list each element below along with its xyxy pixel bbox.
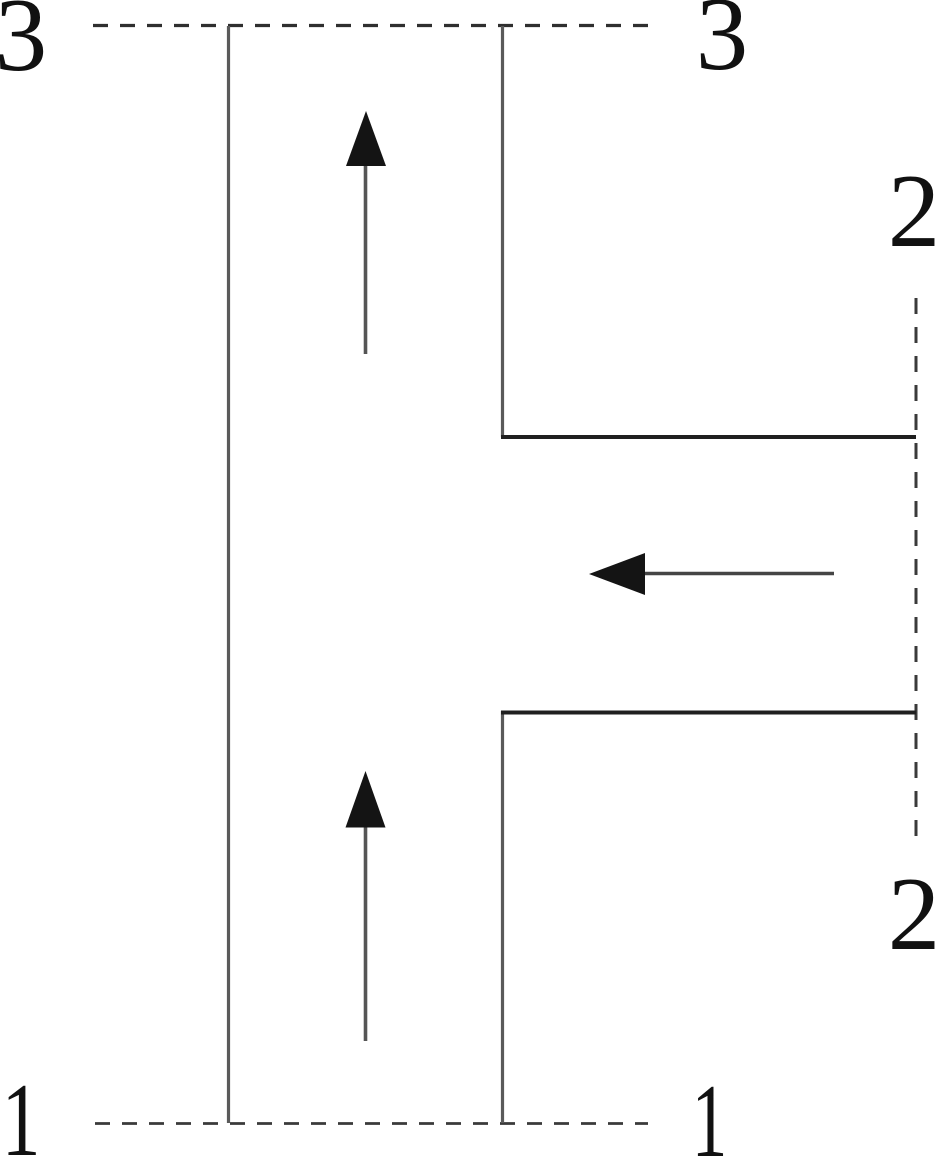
arrow up (bottom traffic direction) [346,771,386,1041]
section line 2-2 (right dashed vertical) [915,298,918,845]
wire: left road edge (vertical) [227,26,230,1123]
svg-text:3: 3 [696,0,749,92]
wire: right road edge lower segment [501,711,504,1123]
wire: right road edge upper segment [501,26,504,437]
section line 3-3 (top dashed) [93,24,648,27]
svg-text:3: 3 [0,0,47,93]
wire: side road top edge [501,435,916,439]
svg-text:2: 2 [888,855,941,972]
arrow left (side road traffic direction) [589,553,834,595]
arrow up (top traffic direction) [346,111,386,354]
svg-text:1: 1 [692,1064,728,1160]
wire: side road bottom edge [501,711,916,715]
svg-text:1: 1 [2,1062,41,1160]
svg-text:2: 2 [888,152,941,269]
section line 1-1 (bottom dashed) [95,1122,648,1125]
